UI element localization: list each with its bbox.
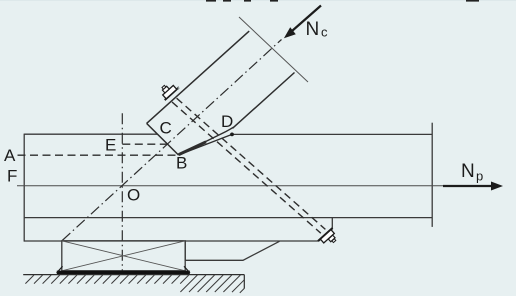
base plate end tick left xyxy=(57,266,63,273)
svg-text:D: D xyxy=(221,112,233,131)
double dashed bolt axis lines xyxy=(172,102,321,233)
force arrow Nc xyxy=(288,6,321,35)
svg-text:N: N xyxy=(306,19,320,40)
faint crop artifact line along top edge xyxy=(0,0,516,1)
svg-text:A: A xyxy=(4,146,16,165)
bolted end-plate symbol near C xyxy=(157,79,180,102)
diagonal centerline through O (pad corner to Nc arrow) xyxy=(62,40,281,241)
wedge upper line B to member right edge xyxy=(179,127,234,155)
ground surface line xyxy=(23,274,244,276)
ground block right edge xyxy=(243,275,245,289)
dashed line A xyxy=(18,154,179,156)
base plate end tick right xyxy=(184,266,190,273)
dashed line E xyxy=(122,143,167,145)
svg-text:C: C xyxy=(160,119,172,138)
chord right break (cut) vertical line xyxy=(431,123,433,227)
chord left end vertical edge xyxy=(23,134,25,242)
pad cross diagonal 2 xyxy=(62,241,185,271)
svg-text:c: c xyxy=(321,25,328,40)
bolted end-plate symbol at shoe bevel xyxy=(318,228,340,250)
chord line at angle-leg level xyxy=(24,217,432,219)
svg-text:E: E xyxy=(105,136,116,155)
chord top edge left segment xyxy=(24,133,157,135)
svg-text:N: N xyxy=(461,161,475,182)
wedge lower line B to tip xyxy=(179,134,233,155)
base plate (thick) xyxy=(57,271,190,275)
bearing pad rectangle xyxy=(62,241,185,271)
svg-text:p: p xyxy=(476,169,483,184)
pad cross diagonal 1 xyxy=(62,241,185,271)
svg-text:O: O xyxy=(127,186,140,205)
chord bottom edge xyxy=(24,240,318,242)
ground hatching xyxy=(25,275,244,293)
diagonal member right edge xyxy=(233,73,295,129)
chord top edge right segment xyxy=(232,133,432,135)
axis line F (chord axis) xyxy=(17,185,446,187)
svg-text:B: B xyxy=(176,154,187,173)
svg-text:F: F xyxy=(7,167,17,186)
cropped text descenders from caption above xyxy=(206,0,479,2)
vertical centerline through O xyxy=(121,113,123,273)
diagonal member end cut edge C-B xyxy=(147,123,179,155)
member top break (section) line xyxy=(239,17,308,82)
wedge tip dot xyxy=(230,133,234,137)
wedge root thickening at B xyxy=(179,142,206,155)
diagonal member left edge xyxy=(147,31,250,123)
bevel cut at shoe right end xyxy=(318,218,332,241)
force arrow Np xyxy=(443,185,494,187)
shoe web plate under chord (trapezoid) xyxy=(185,241,279,260)
